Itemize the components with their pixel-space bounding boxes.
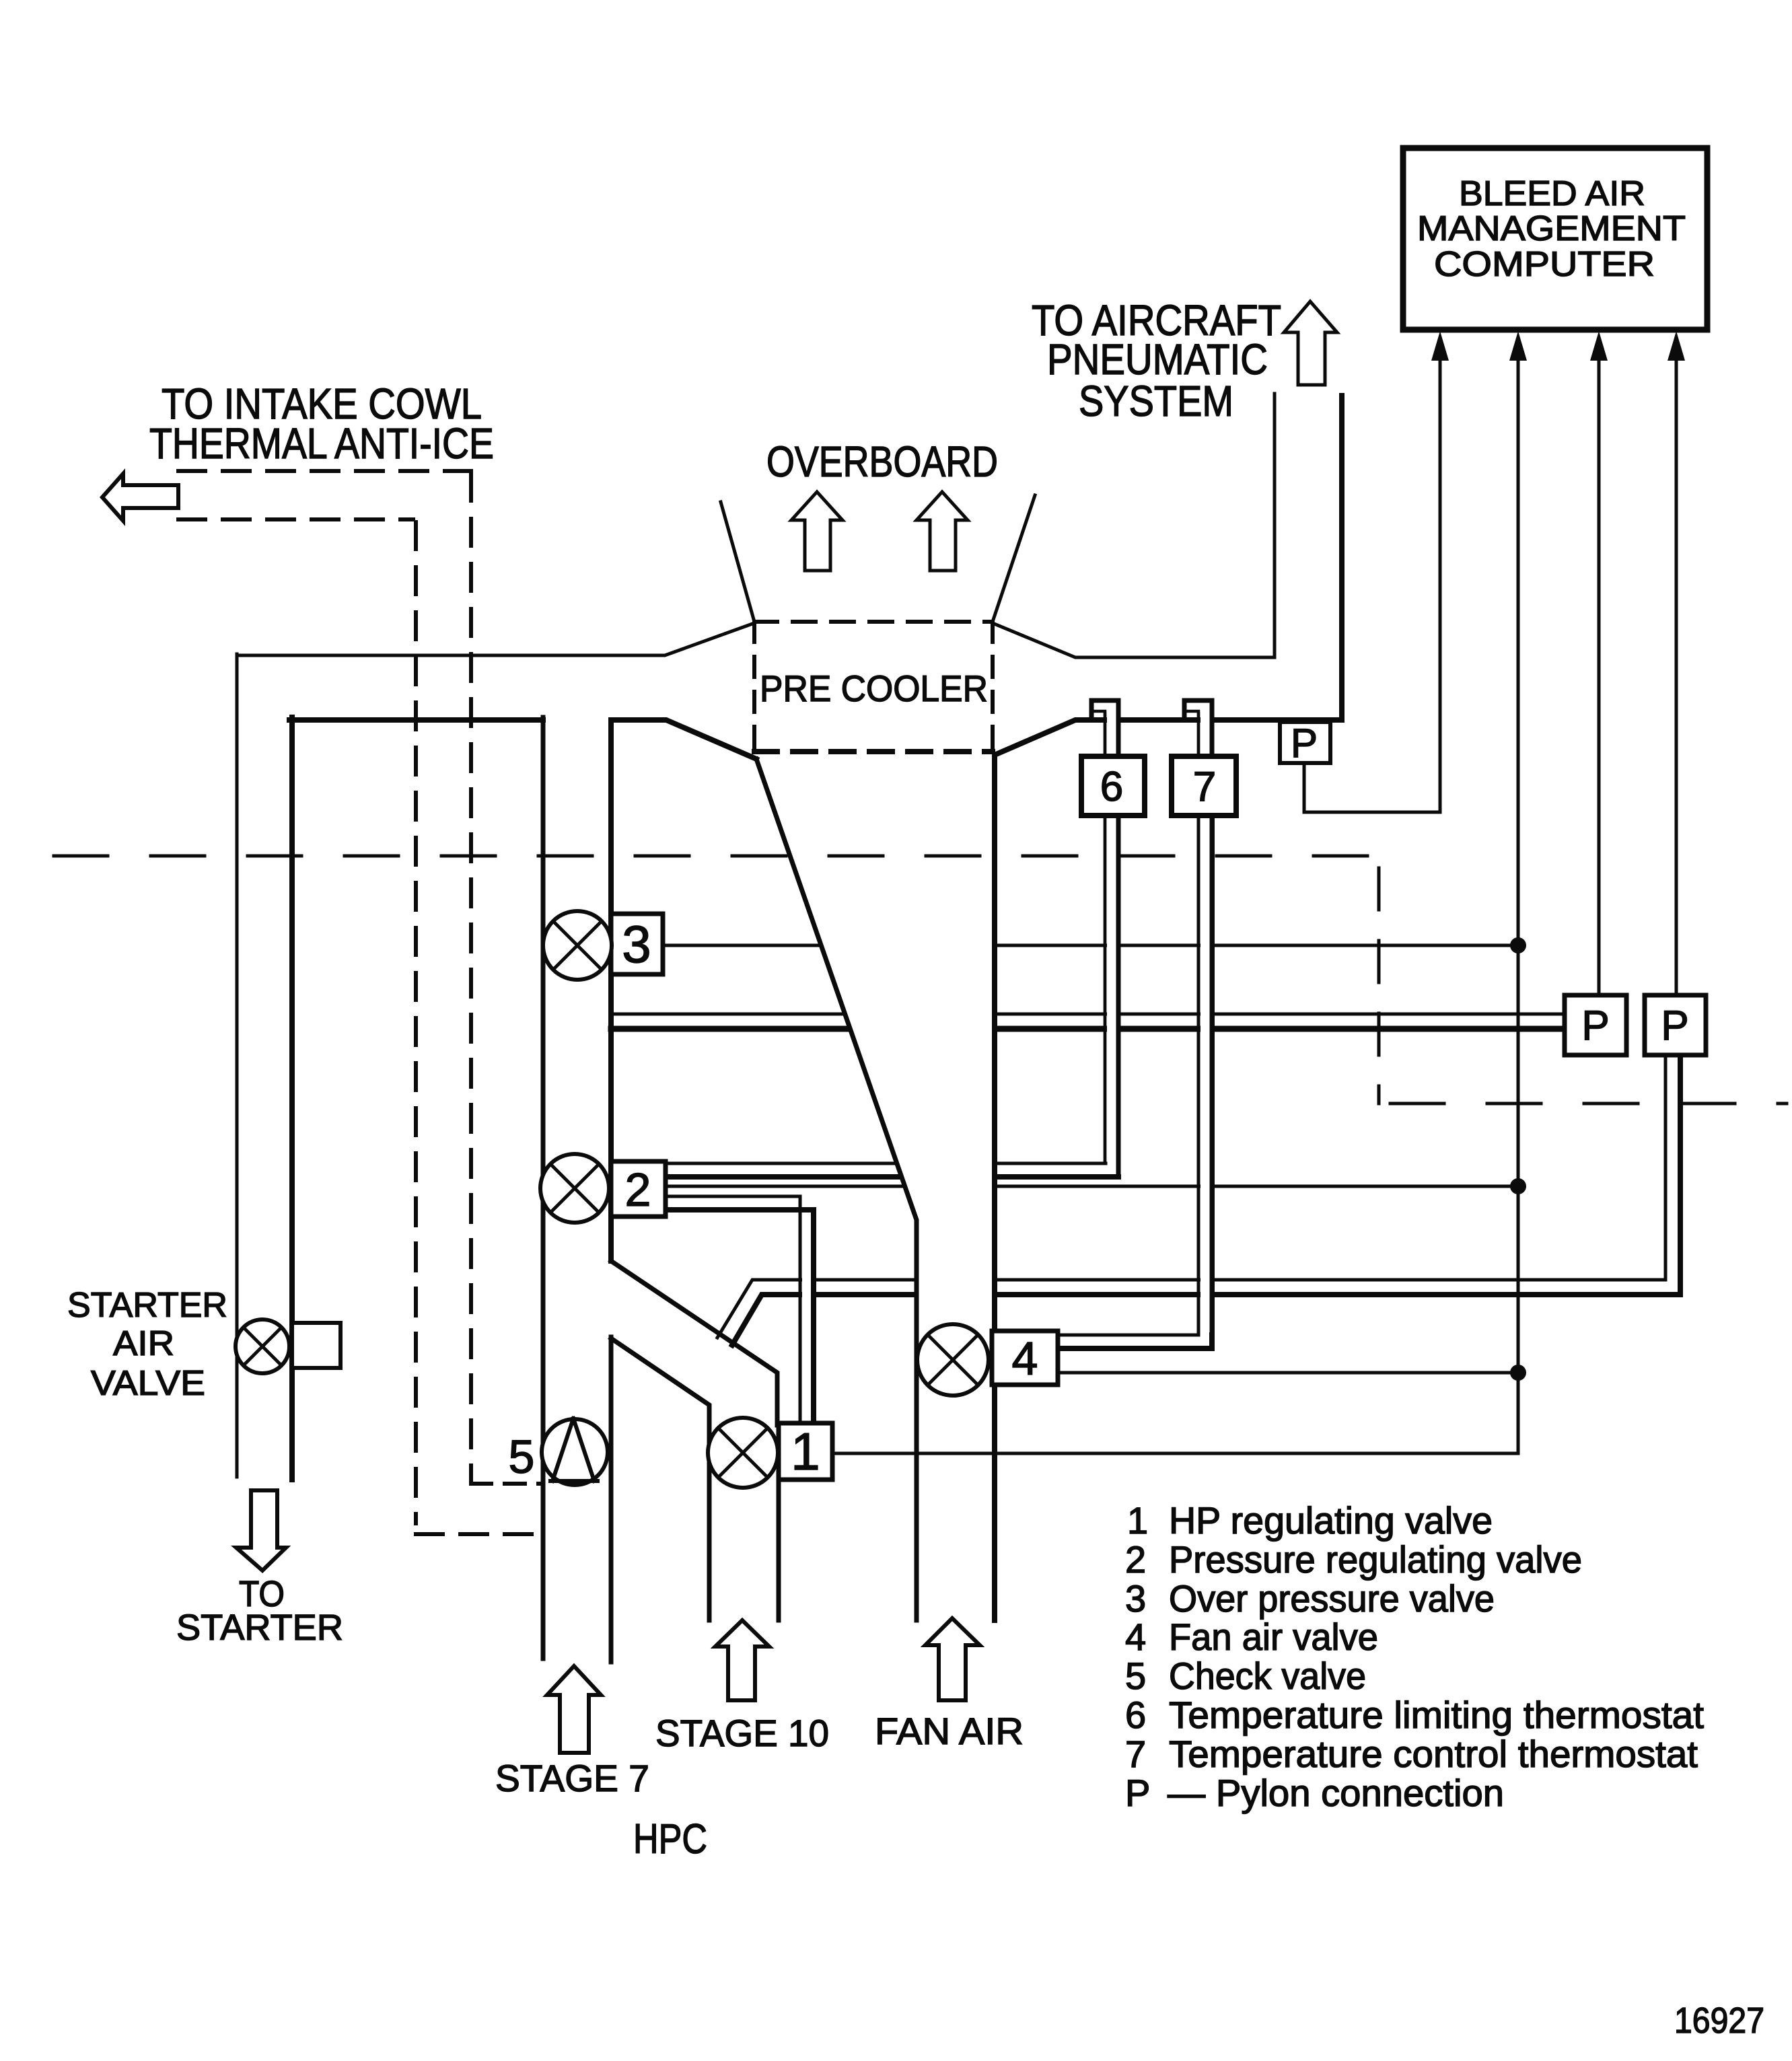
HP regulating valve box 1 <box>779 1423 832 1480</box>
svg-text:Over pressure valve: Over pressure valve <box>1169 1577 1495 1620</box>
svg-text:5: 5 <box>509 1431 535 1483</box>
pipe : HP branch to pylon connection P3 (lower thick line) <box>732 1055 1680 1345</box>
wire : pylon connection P1 link down and right <box>1304 763 1440 812</box>
pre cooler dashed box left <box>752 622 756 752</box>
svg-text:Temperature limiting thermosta: Temperature limiting thermostat <box>1169 1694 1704 1736</box>
pressure regulating valve box 2 <box>611 1161 666 1217</box>
engine centerline dashed <box>54 855 1379 858</box>
anti-ice dashed duct left vertical <box>414 522 418 1523</box>
svg-text:3: 3 <box>622 914 651 974</box>
anti-ice dashed duct lower horizontal <box>178 517 413 521</box>
block arrow : stage 10 inlet <box>715 1620 769 1700</box>
thermostat box 7 <box>1172 756 1236 816</box>
pipe : valve 2 to valve 1 actuator (thin line) <box>666 1196 800 1425</box>
pipe : thermostat 7 probe hook inner <box>1184 711 1198 759</box>
pre cooler dashed box right <box>991 622 995 752</box>
svg-text:Check valve: Check valve <box>1169 1655 1366 1697</box>
svg-text:BLEED AIR: BLEED AIR <box>1459 174 1645 213</box>
svg-text:SYSTEM: SYSTEM <box>1079 377 1233 425</box>
svg-text:P: P <box>1661 1003 1688 1049</box>
fan air funnel white body (hides the lines above) <box>756 752 995 1620</box>
wire : valve 3 sense line to node column <box>663 944 1518 947</box>
valve V4 fan air valve circle <box>917 1324 989 1396</box>
svg-text:3: 3 <box>1125 1577 1146 1620</box>
pipe restroke : P3 down pipe <box>1664 1056 1668 1278</box>
duct : starter duct left wall <box>236 654 239 1477</box>
wire : BAMC riser 3 from P2 <box>1598 355 1601 995</box>
block arrow : overboard left <box>791 492 843 571</box>
block arrow : to aircraft pneumatic system (up) <box>1284 301 1337 385</box>
svg-text:THERMAL ANTI-ICE: THERMAL ANTI-ICE <box>149 419 494 468</box>
svg-text:7: 7 <box>1193 764 1216 810</box>
svg-text:STARTER: STARTER <box>176 1607 343 1648</box>
svg-text:Temperature control thermostat: Temperature control thermostat <box>1169 1733 1698 1775</box>
svg-text:HP regulating valve: HP regulating valve <box>1169 1499 1493 1542</box>
pipe : thermostat 7 to valve 4 (thin line) <box>1058 814 1198 1335</box>
arrowhead riser 4 into computer <box>1668 331 1685 361</box>
valve V2 pressure regulating valve circle <box>540 1154 609 1223</box>
duct : Y branch lower diagonal and stage 10 duct left wall <box>611 1338 709 1620</box>
anti-ice dashed duct upper horizontal <box>178 469 471 473</box>
pylon connection box P1 <box>1280 722 1330 763</box>
svg-text:PRE COOLER: PRE COOLER <box>760 667 988 709</box>
svg-text:1: 1 <box>791 1422 820 1481</box>
duct : Y branch upper diagonal to HP valve <box>611 1261 777 1425</box>
block arrow : overboard right <box>917 492 968 571</box>
pylon boundary dashed horizontal <box>1390 1102 1787 1106</box>
block arrow : stage 7 inlet <box>547 1666 601 1753</box>
duct : upper wall of pneumatic duct (thin) <box>993 394 1275 657</box>
svg-text:P: P <box>1581 1003 1609 1049</box>
wire : BAMC riser 4 from P3 <box>1675 355 1678 995</box>
pipe restroke : thermostat 7 down leg <box>1197 713 1200 1334</box>
pipe interior white : P3 down pipe <box>1668 1058 1678 1278</box>
duct : stage 7 duct right wall upper + turn to precooler <box>611 720 756 1261</box>
pre cooler dashed box bottom <box>754 749 993 754</box>
junction node A on riser 2 (valve 3 line) <box>1510 937 1526 953</box>
pipe : thermostat 7 to valve 4 (thick line) <box>1058 814 1212 1348</box>
pipe : thermostat 6 probe hook outer <box>1091 700 1118 759</box>
pipe : thermostat 6 probe hook inner <box>1091 711 1105 759</box>
fan air valve box 4 <box>992 1331 1058 1385</box>
pylon boundary dashed vertical <box>1377 868 1381 1104</box>
svg-text:5: 5 <box>1125 1655 1146 1697</box>
wire : BAMC riser 2 node column <box>1517 355 1520 1453</box>
wire : BAMC riser 1 from P1 <box>1439 355 1442 812</box>
pylon connection box P2 <box>1565 995 1626 1055</box>
duct : stage 7 duct left wall <box>541 717 546 1659</box>
pipe : HP branch to pylon connection P3 (upper thin line) <box>717 1055 1665 1338</box>
svg-text:P: P <box>1291 721 1318 766</box>
check valve 5 seat chord <box>550 1479 598 1483</box>
pipe interior white : thermostat 7 pipe <box>1200 713 1210 1332</box>
svg-text:6: 6 <box>1100 764 1123 810</box>
svg-text:4: 4 <box>1125 1616 1146 1658</box>
pipe interior white : thermostat 6 pipe <box>1107 713 1116 1161</box>
svg-text:VALVE: VALVE <box>91 1364 205 1403</box>
arrowhead riser 1 into computer <box>1431 331 1449 361</box>
svg-text:2: 2 <box>1125 1538 1146 1581</box>
pipe interior white : valve 2 to valve 1 riser <box>802 1213 811 1423</box>
svg-text:MANAGEMENT: MANAGEMENT <box>1417 209 1686 248</box>
pipe : valve 2 to valve 1 actuator (thick line) <box>666 1210 814 1425</box>
block arrow : to intake cowl (left) <box>102 474 178 521</box>
anti-ice dashed bottom connector upper <box>471 1482 542 1486</box>
svg-text:STAGE 7: STAGE 7 <box>495 1757 649 1799</box>
pipe : valve 2 to thermostat 6 (upper thin line) <box>666 1162 1106 1165</box>
duct : starter duct right wall <box>289 717 295 1480</box>
arrowhead riser 2 into computer <box>1509 331 1527 361</box>
duct : fan funnel left slope and fan duct left wall <box>756 759 917 1620</box>
svg-text:P: P <box>1125 1772 1150 1814</box>
svg-text:FAN AIR: FAN AIR <box>875 1710 1024 1752</box>
bleed air management computer box U1 <box>1403 148 1707 330</box>
svg-text:AIR: AIR <box>113 1324 174 1363</box>
junction node B on riser 2 (duct sense line) <box>1510 1178 1526 1194</box>
svg-text:16927: 16927 <box>1674 2000 1764 2041</box>
pipe : thermostat 6 down leg thin <box>1104 814 1107 1163</box>
svg-text:STAGE 10: STAGE 10 <box>655 1712 829 1754</box>
thermostat box 6 <box>1081 756 1145 816</box>
check valve 5 poppet triangle <box>552 1418 594 1481</box>
wire : valve 4 sense line to node column <box>1058 1371 1518 1375</box>
junction node C on riser 2 (valve 4 line) <box>1510 1365 1526 1381</box>
pre cooler dashed box top <box>754 620 993 624</box>
svg-text:1: 1 <box>1127 1499 1148 1542</box>
svg-text:COMPUTER: COMPUTER <box>1434 245 1655 284</box>
duct : stage 10 duct right wall below valve 1 <box>777 1480 781 1620</box>
block arrow : to starter (down) <box>236 1490 286 1570</box>
pipe restroke : valve2-valve1 riser <box>799 1211 802 1423</box>
duct : overboard funnel right slope <box>993 495 1035 622</box>
valve V1 HP regulating valve circle <box>708 1418 778 1488</box>
over pressure valve box 3 <box>611 914 663 974</box>
svg-text:6: 6 <box>1125 1694 1146 1736</box>
svg-text:Fan air valve: Fan air valve <box>1169 1616 1378 1658</box>
check valve 5 circle <box>542 1419 608 1485</box>
wire : duct static sense line from box 2 to node column <box>666 1185 1518 1188</box>
svg-text:4: 4 <box>1012 1332 1038 1385</box>
duct : overboard funnel left slope <box>721 502 754 622</box>
svg-text:OVERBOARD: OVERBOARD <box>766 437 998 486</box>
arrowhead riser 3 into computer <box>1590 331 1608 361</box>
pipe : stage 7 manifold to pylon connection P2 (upper thin line) <box>611 1013 1565 1016</box>
svg-text:— Pylon connection: — Pylon connection <box>1168 1772 1504 1814</box>
duct : stage 7 duct right wall lower <box>609 1337 614 1662</box>
svg-text:STARTER: STARTER <box>67 1286 227 1325</box>
duct : manifold bottom cap between starter and stage 7 ducts <box>289 717 543 723</box>
valve V3 over pressure valve circle <box>543 911 612 980</box>
block arrow : fan air inlet <box>925 1618 980 1700</box>
anti-ice dashed bottom connector lower <box>416 1532 542 1536</box>
svg-text:HPC: HPC <box>633 1816 707 1863</box>
svg-text:2: 2 <box>625 1163 651 1216</box>
pipe : thermostat 7 probe hook outer <box>1184 700 1212 759</box>
pylon connection box P3 <box>1645 995 1706 1055</box>
wire : valve 1 output line to node column riser <box>832 1452 1518 1455</box>
pipe : thermostat 6 down leg thick <box>1116 814 1121 1177</box>
starter air valve circle <box>236 1319 289 1373</box>
duct : fan duct right wall and lower wall of pneumatic duct <box>995 396 1342 1620</box>
pipe : stage 7 manifold to pylon connection P2 (lower thick line) <box>611 1026 1565 1032</box>
svg-text:7: 7 <box>1125 1733 1146 1775</box>
svg-text:Pressure regulating valve: Pressure regulating valve <box>1169 1538 1582 1581</box>
duct : manifold outer top wall (thin) <box>237 623 754 655</box>
pipe restroke : thermostat 6 down leg <box>1104 713 1107 1161</box>
starter air valve actuator box <box>292 1323 341 1368</box>
pipe : valve 2 to thermostat 6 (lower thick line) <box>666 1174 1118 1180</box>
anti-ice dashed duct right vertical <box>469 474 473 1482</box>
